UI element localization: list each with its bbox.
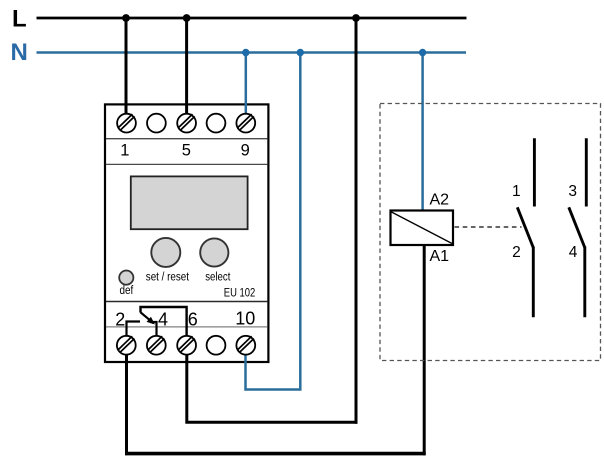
terminal 4 (screw) bbox=[147, 336, 166, 355]
pin label 9 bbox=[241, 142, 250, 160]
terminal 2 (screw) bbox=[117, 336, 136, 355]
mechanical linkage (dashed) bbox=[455, 226, 522, 228]
pin label 2 (contact) bbox=[512, 244, 521, 261]
junction dot L at x126 bbox=[122, 14, 130, 22]
pin label 6 bbox=[188, 310, 198, 330]
contactor coil K1 bbox=[391, 211, 454, 246]
wire N to terminal 9 bbox=[245, 53, 248, 115]
pin label A1 bbox=[430, 248, 450, 265]
junction dot L at x186 bbox=[183, 14, 191, 22]
button def bbox=[119, 271, 133, 285]
pin label 10 bbox=[235, 309, 255, 329]
wire coil A1 down bbox=[423, 244, 426, 455]
wire bottom run to coil A1 bbox=[125, 452, 426, 456]
junction dot N at x300 bbox=[297, 49, 304, 56]
label select bbox=[205, 271, 231, 283]
contact 1-2 bbox=[517, 138, 534, 317]
label set / reset bbox=[146, 271, 190, 283]
junction dot L at x356 bbox=[352, 14, 360, 22]
svg-text:def: def bbox=[120, 285, 134, 297]
terminal 6 (screw) bbox=[177, 336, 196, 355]
svg-text:N: N bbox=[11, 39, 28, 66]
svg-text:2: 2 bbox=[512, 244, 521, 261]
wire L to terminal 1 bbox=[125, 18, 128, 114]
pin label 2 bbox=[115, 310, 125, 330]
terminal 9 (screw) bbox=[236, 114, 255, 133]
svg-text:4: 4 bbox=[569, 244, 578, 261]
pin label 1 (contact) bbox=[512, 183, 521, 200]
internal relay contact 2-4-6 bbox=[127, 307, 187, 335]
terminal 5 (screw) bbox=[177, 114, 196, 133]
svg-text:EU 102: EU 102 bbox=[224, 285, 256, 299]
button set/reset bbox=[151, 238, 180, 267]
svg-text:1: 1 bbox=[512, 183, 521, 200]
contact 3-4 bbox=[569, 138, 587, 317]
svg-text:L: L bbox=[12, 6, 27, 33]
pin label 5 bbox=[182, 142, 191, 160]
pin label 4 bbox=[158, 310, 168, 330]
svg-text:select: select bbox=[205, 271, 231, 283]
svg-text:A1: A1 bbox=[430, 248, 450, 265]
svg-text:4: 4 bbox=[158, 310, 168, 330]
pin label 4 (contact) bbox=[569, 244, 578, 261]
svg-text:5: 5 bbox=[182, 142, 191, 160]
svg-text:6: 6 bbox=[188, 310, 198, 330]
unused top terminal 2 bbox=[207, 114, 226, 133]
terminal 10 (screw) bbox=[236, 336, 255, 355]
button select bbox=[200, 238, 228, 266]
svg-text:2: 2 bbox=[115, 310, 125, 330]
wire N rail bbox=[37, 51, 467, 54]
svg-text:3: 3 bbox=[568, 183, 577, 200]
pin label 3 (contact) bbox=[568, 183, 577, 200]
unused bottom terminal bbox=[207, 336, 226, 355]
svg-text:1: 1 bbox=[120, 142, 129, 160]
svg-text:set / reset: set / reset bbox=[146, 271, 190, 283]
net N label bbox=[11, 39, 28, 66]
wire terminal 2 down bbox=[125, 352, 128, 455]
svg-text:10: 10 bbox=[235, 309, 255, 329]
wire L rail bbox=[37, 17, 467, 20]
unused top terminal bbox=[147, 114, 166, 133]
wire N to coil A2 bbox=[421, 53, 424, 212]
pin label A2 bbox=[430, 191, 450, 208]
contactor dashed enclosure bbox=[380, 104, 601, 361]
label EU 102 bbox=[224, 285, 256, 299]
label def bbox=[120, 285, 134, 297]
wire L to terminal 5 bbox=[185, 18, 188, 114]
timer device EU 102 body bbox=[105, 104, 268, 362]
pin label 1 bbox=[120, 142, 129, 160]
svg-text:A2: A2 bbox=[430, 191, 450, 208]
LCD display bbox=[131, 176, 248, 229]
junction dot N at x422 bbox=[419, 49, 426, 56]
wire N loop to terminal 10 bbox=[246, 53, 301, 390]
svg-text:9: 9 bbox=[241, 142, 250, 160]
net L label bbox=[12, 6, 27, 33]
wire terminal 6 to L drop bbox=[187, 352, 358, 422]
terminal 1 (screw) bbox=[117, 114, 136, 133]
wire L drop right of device bbox=[355, 18, 358, 424]
junction dot N at x245 bbox=[242, 49, 249, 56]
